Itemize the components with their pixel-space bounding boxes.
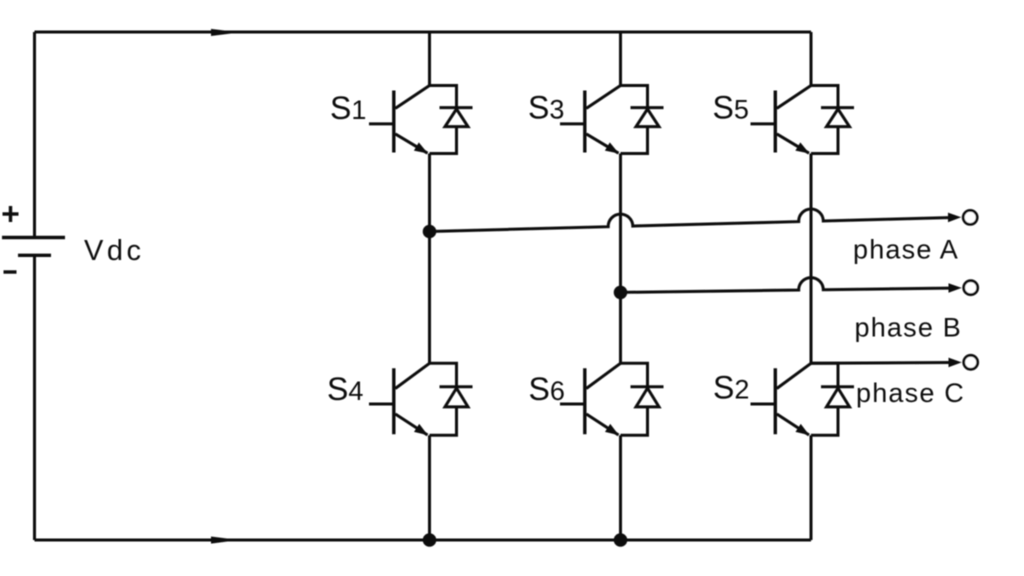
svg-text:phase C: phase C — [856, 378, 965, 408]
svg-text:Vdc: Vdc — [84, 235, 144, 267]
svg-text:S4: S4 — [327, 371, 363, 407]
svg-text:phase A: phase A — [853, 235, 959, 265]
svg-text:S3: S3 — [528, 90, 564, 126]
svg-text:S5: S5 — [713, 90, 749, 126]
svg-text:S2: S2 — [713, 370, 749, 406]
svg-text:phase B: phase B — [855, 313, 962, 343]
svg-text:S1: S1 — [330, 90, 366, 126]
svg-text:S6: S6 — [529, 371, 565, 407]
